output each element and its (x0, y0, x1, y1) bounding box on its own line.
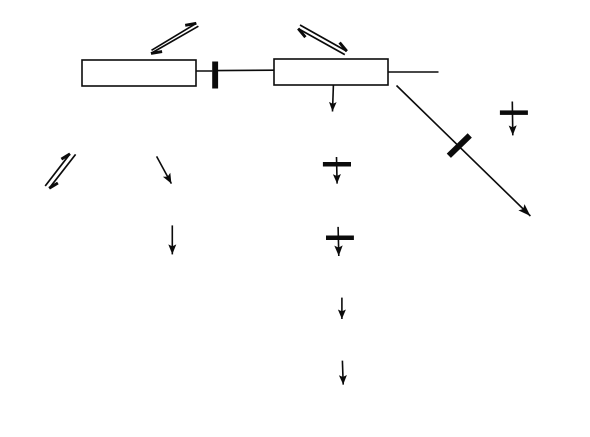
wire M1-to-B2 (218, 69, 274, 71)
double arrow P3 (lower left, reversible) (45, 154, 75, 189)
T-bar T3 arrow (509, 102, 517, 136)
tilted thick bar M2 (on diagonal beam) (447, 133, 472, 158)
T-bar T3 bar (top right) (500, 110, 528, 115)
arrow A4 (down, middle column) (338, 298, 346, 319)
double arrow P1 (above B1, reversible) (151, 23, 198, 53)
T-bar T1 arrow (333, 157, 341, 184)
arrow A2 (down, left column) (168, 225, 176, 254)
double arrow P2 (above B2, reversible) (298, 25, 347, 55)
wire B1-to-M1 (196, 70, 212, 72)
diagonal beam arrow (output) (397, 86, 531, 217)
thick vertical bar M1 (between boxes) (212, 62, 218, 89)
T-bar T2 arrow (334, 227, 342, 256)
arrow A3 (down from B2 bottom) (329, 85, 337, 111)
T-bar T1 bar (323, 162, 351, 167)
arrow A5 (down, middle column bottom) (339, 361, 347, 385)
box B1 (left cell) (82, 60, 196, 86)
arrow A1 (down-right, left column) (157, 156, 172, 183)
box B2 (right cell) (274, 59, 388, 85)
T-bar T2 bar (326, 236, 354, 241)
wire B2-output (right) (388, 71, 438, 73)
